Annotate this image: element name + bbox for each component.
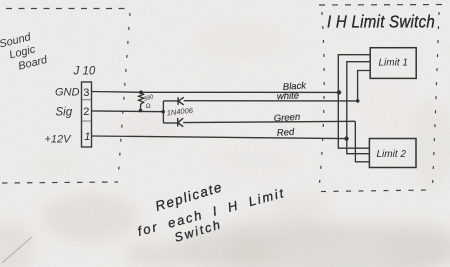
diode D1 1N4006 (White)	[178, 97, 184, 105]
limit switch 2 box	[369, 139, 416, 168]
diode D2 1N4006 (Green)	[178, 118, 184, 127]
IH limit switch dashed enclosure	[319, 5, 449, 192]
wire: Green line	[183, 121, 355, 122]
wire: GND / Black line	[92, 91, 340, 94]
wire: diode branch vertical	[162, 101, 164, 123]
wire: White line	[184, 100, 358, 102]
label: Sound Logic Board	[0, 28, 49, 75]
wire: Sig line	[92, 110, 164, 113]
wire: Red common to Limit1 T2 and Limit2 T2	[347, 62, 370, 154]
wire: branch to D2	[163, 122, 177, 124]
connector J10	[82, 82, 92, 147]
J10 pin divider 3/2	[82, 99, 92, 101]
J10 pin divider 2/1	[82, 120, 92, 122]
junction dot: Red to T2 riser	[344, 136, 348, 140]
wire: +12V / Red line	[92, 136, 347, 139]
limit switch 1 box	[370, 48, 416, 79]
wire: Black common to Limit1 T1 and Limit2 T1	[338, 55, 370, 149]
junction dot: resistor bottom on Sig	[139, 109, 143, 113]
wire: branch to D1	[163, 100, 177, 102]
junction dot: Black to T1 riser	[337, 90, 341, 94]
resistor R 390 ohm	[139, 93, 144, 111]
junction dot: resistor top on Black	[139, 90, 143, 94]
wire: Green to Limit2 T3	[355, 121, 369, 162]
stray pen tick bottom left	[2, 237, 32, 263]
junction dot: Sig diode branch	[161, 110, 165, 114]
sound logic board dashed enclosure	[2, 9, 130, 184]
wire: White to Limit1 T3	[358, 71, 371, 101]
junction dot: White end	[356, 99, 360, 103]
